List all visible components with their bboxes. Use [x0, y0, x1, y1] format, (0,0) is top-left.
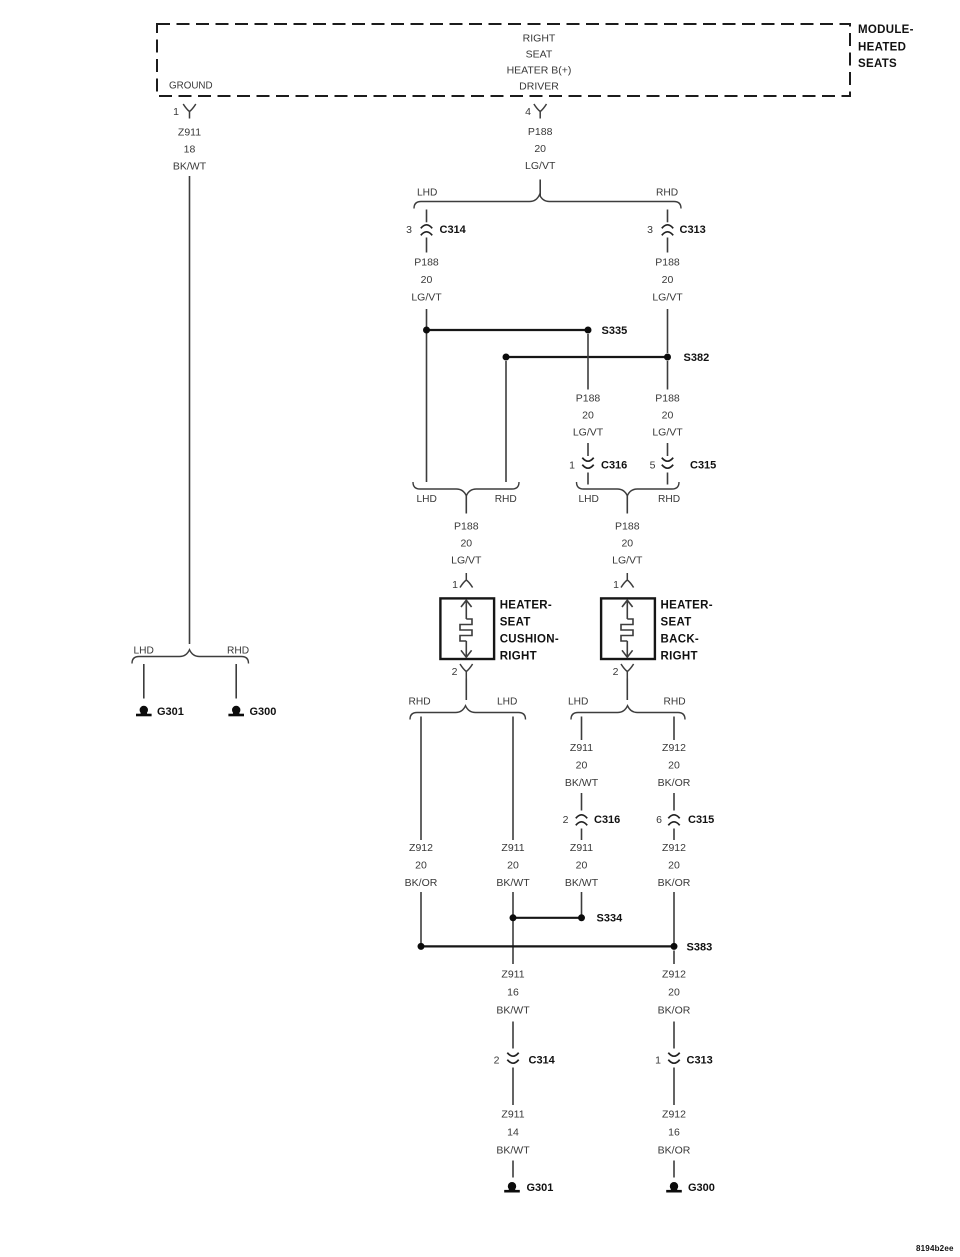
svg-text:LHD: LHD [568, 696, 588, 707]
wire Z911 14 BK/WT label [512, 1068, 514, 1106]
svg-text:C313: C313 [687, 1054, 713, 1066]
svg-text:20: 20 [507, 859, 519, 871]
wire: to S334 [581, 892, 583, 915]
svg-text:3: 3 [406, 224, 412, 236]
svg-text:1: 1 [173, 106, 179, 118]
svg-text:BK/WT: BK/WT [565, 877, 599, 889]
svg-text:P188: P188 [615, 520, 640, 532]
wire: merge to heater back [626, 496, 628, 514]
merge brace LHD/RHD (heater-seat cushion feed) [413, 482, 519, 505]
wire Z912 16 BK/OR label [673, 1068, 675, 1106]
svg-text:P188: P188 [454, 520, 479, 532]
wire: merge to heater cushion [465, 496, 467, 514]
wire Z911 20 BK/WT label (back LHD lower) [581, 829, 583, 841]
connector C315 pin 5 [650, 458, 717, 472]
wire: back LHD return [581, 717, 583, 741]
svg-text:RHD: RHD [664, 696, 686, 707]
module label MODULE-HEATED SEATS [858, 24, 914, 70]
svg-text:CUSHION-: CUSHION- [500, 634, 559, 646]
svg-text:LG/VT: LG/VT [652, 291, 683, 303]
svg-text:BK/WT: BK/WT [496, 877, 530, 889]
wire: heater cushion to split [465, 679, 467, 701]
svg-text:LG/VT: LG/VT [612, 554, 643, 566]
svg-text:MODULE-: MODULE- [858, 24, 914, 36]
pin 4 of module (RIGHT SEAT HEATER B+ DRIVER) [525, 104, 546, 119]
svg-text:Z912: Z912 [662, 968, 686, 980]
svg-text:BK/WT: BK/WT [496, 1144, 530, 1156]
svg-text:20: 20 [576, 759, 588, 771]
svg-text:Z912: Z912 [409, 842, 433, 854]
split brace LHD/RHD (top) [414, 187, 681, 208]
wire: brace to C314 [426, 210, 428, 223]
svg-text:P188: P188 [576, 392, 601, 404]
svg-text:SEAT: SEAT [500, 617, 531, 629]
svg-text:G301: G301 [527, 1182, 554, 1194]
svg-text:BK/WT: BK/WT [173, 160, 207, 172]
svg-text:S334: S334 [597, 913, 624, 925]
svg-text:16: 16 [507, 986, 519, 998]
svg-text:LHD: LHD [417, 187, 437, 198]
svg-text:Z911: Z911 [178, 126, 201, 138]
svg-text:BK/OR: BK/OR [658, 877, 691, 889]
svg-text:8194b2ee: 8194b2ee [916, 1244, 954, 1253]
svg-text:1: 1 [569, 459, 575, 471]
wire P188 20 LG/VT label (LHD branch) [426, 238, 428, 253]
svg-text:16: 16 [668, 1126, 680, 1138]
wire: left ground run [189, 176, 191, 644]
wire Z912 20 BK/OR label (back RHD lower) [673, 829, 675, 841]
svg-text:C315: C315 [688, 814, 714, 826]
wire: C316 to merge brace [587, 473, 589, 485]
connector C313 pin 3 [647, 224, 706, 236]
svg-text:HEATER B(+): HEATER B(+) [507, 65, 572, 77]
heater element: HEATER-SEAT CUSHION-RIGHT [440, 598, 494, 659]
svg-text:RHD: RHD [656, 187, 678, 198]
svg-text:GROUND: GROUND [169, 81, 213, 92]
split brace LHD/RHD (back return) [568, 696, 686, 719]
svg-text:LG/VT: LG/VT [525, 160, 556, 172]
wire: through S334 and S383 [512, 892, 514, 964]
wire: C313 down to splice S382 [667, 309, 669, 353]
splice S335 [423, 325, 627, 337]
svg-text:S335: S335 [602, 325, 628, 337]
svg-text:1: 1 [613, 579, 619, 591]
svg-text:Z911: Z911 [501, 968, 524, 980]
svg-text:2: 2 [613, 666, 619, 678]
pin 2 of heater back [613, 664, 634, 679]
svg-text:20: 20 [668, 859, 680, 871]
label HEATER-SEAT CUSHION-RIGHT [500, 600, 559, 663]
module U1: MODULE-HEATED SEATS (dashed outline) [157, 24, 850, 96]
connector C313 pin 1 [655, 1053, 713, 1067]
wire to G300 (RHD) [235, 664, 237, 699]
svg-text:4: 4 [525, 106, 531, 118]
svg-text:Z912: Z912 [662, 1108, 686, 1120]
svg-text:C314: C314 [529, 1054, 556, 1066]
pin 1 of heater back [613, 573, 633, 591]
heater element: HEATER-SEAT BACK-RIGHT [601, 598, 655, 659]
splice S382 [503, 352, 710, 364]
svg-text:Z912: Z912 [662, 842, 686, 854]
wire: C315 to merge brace [667, 473, 669, 485]
svg-text:20: 20 [421, 274, 433, 286]
svg-text:Z912: Z912 [662, 742, 686, 754]
svg-text:P188: P188 [414, 256, 439, 268]
merge brace LHD/RHD (heater-seat back feed) [577, 482, 681, 505]
pin 1 of module (GROUND) [173, 104, 196, 119]
svg-text:20: 20 [621, 537, 633, 549]
wire into C314 (bottom) [512, 1022, 514, 1049]
connector C316 pin 2 [563, 814, 621, 826]
wire: cushion RHD return run [420, 717, 422, 841]
svg-text:BK/OR: BK/OR [658, 777, 691, 789]
svg-text:20: 20 [662, 409, 674, 421]
svg-text:1: 1 [655, 1054, 661, 1066]
svg-text:LG/VT: LG/VT [573, 426, 604, 438]
wire: S382 right leg down [667, 361, 669, 390]
svg-text:1: 1 [452, 579, 458, 591]
svg-text:LHD: LHD [497, 696, 517, 707]
svg-text:20: 20 [534, 143, 546, 155]
ground G301 (left) [136, 706, 184, 718]
svg-text:Z911: Z911 [501, 842, 524, 854]
svg-text:P188: P188 [528, 126, 553, 138]
svg-text:SEAT: SEAT [661, 617, 692, 629]
svg-text:S382: S382 [684, 352, 710, 364]
svg-text:C316: C316 [594, 814, 620, 826]
svg-text:2: 2 [563, 814, 569, 826]
wire into C315 [673, 793, 675, 811]
wire to G301 (LHD) [143, 664, 145, 699]
wire: C314 down to merge (through S335) [426, 309, 428, 482]
svg-text:C314: C314 [440, 224, 467, 236]
wire: S383 to label [673, 951, 675, 965]
svg-text:G300: G300 [688, 1182, 715, 1194]
wire: S335 right leg down [587, 334, 589, 390]
svg-text:P188: P188 [655, 256, 680, 268]
wire into C316 [581, 793, 583, 811]
svg-text:RIGHT: RIGHT [500, 651, 537, 663]
svg-text:HEATED: HEATED [858, 42, 906, 54]
svg-text:5: 5 [650, 459, 656, 471]
ground G300 (left) [228, 706, 276, 718]
svg-text:DRIVER: DRIVER [519, 81, 559, 93]
svg-text:RHD: RHD [658, 494, 680, 505]
svg-text:SEAT: SEAT [526, 49, 553, 61]
wire: brace to C313 [667, 210, 669, 223]
svg-text:LHD: LHD [579, 494, 599, 505]
svg-text:LHD: LHD [134, 645, 154, 656]
connector C315 pin 6 [656, 814, 714, 826]
svg-text:BK/OR: BK/OR [658, 1144, 691, 1156]
wire: pin 4 to split [539, 180, 541, 197]
svg-text:Z911: Z911 [570, 842, 593, 854]
pin 1 of heater cushion [452, 573, 472, 591]
svg-text:BACK-: BACK- [661, 634, 700, 646]
svg-text:6: 6 [656, 814, 662, 826]
wire: back RHD return [673, 717, 675, 741]
svg-text:20: 20 [668, 759, 680, 771]
splice S383 [418, 941, 713, 953]
wire: cushion LHD return run [512, 717, 514, 841]
wire: to S383 [673, 892, 675, 943]
svg-text:G301: G301 [157, 706, 184, 718]
svg-text:3: 3 [647, 224, 653, 236]
svg-text:20: 20 [662, 274, 674, 286]
svg-text:20: 20 [576, 859, 588, 871]
svg-text:20: 20 [460, 537, 472, 549]
svg-text:LG/VT: LG/VT [652, 426, 683, 438]
svg-text:SEATS: SEATS [858, 58, 897, 70]
svg-text:RHD: RHD [409, 696, 431, 707]
pin 2 of heater cushion [452, 664, 473, 679]
wire: down to S383 [420, 892, 422, 943]
splice S334 [510, 913, 624, 925]
wire into C313 (bottom) [673, 1022, 675, 1049]
svg-text:S383: S383 [687, 941, 713, 953]
wire P188 20 LG/VT label (RHD branch) [667, 238, 669, 253]
svg-text:20: 20 [582, 409, 594, 421]
connector C316 pin 1 [569, 458, 627, 472]
wire: S382 left leg down to merge [505, 361, 507, 482]
connector C314 pin 3 [406, 224, 467, 236]
svg-text:RHD: RHD [227, 645, 249, 656]
svg-text:HEATER-: HEATER- [500, 600, 552, 612]
svg-text:RIGHT: RIGHT [523, 33, 556, 45]
ground G300 (bottom) [666, 1182, 715, 1194]
wire: to ground G300 [673, 1161, 675, 1178]
svg-text:RHD: RHD [495, 494, 517, 505]
svg-text:C315: C315 [690, 459, 716, 471]
svg-text:2: 2 [494, 1054, 500, 1066]
split brace RHD/LHD (cushion return) [409, 696, 526, 719]
split brace LHD/RHD (left ground) [132, 645, 249, 663]
svg-text:LHD: LHD [417, 494, 437, 505]
svg-text:20: 20 [415, 859, 427, 871]
svg-text:G300: G300 [250, 706, 277, 718]
svg-text:BK/WT: BK/WT [565, 777, 599, 789]
svg-text:Z911: Z911 [570, 742, 593, 754]
svg-text:20: 20 [668, 986, 680, 998]
svg-text:LG/VT: LG/VT [451, 554, 482, 566]
connector C314 pin 2 [494, 1053, 556, 1067]
svg-text:BK/OR: BK/OR [405, 877, 438, 889]
svg-text:BK/WT: BK/WT [496, 1004, 530, 1016]
svg-text:14: 14 [507, 1126, 519, 1138]
svg-text:Z911: Z911 [501, 1108, 524, 1120]
svg-text:BK/OR: BK/OR [658, 1004, 691, 1016]
wire: to ground G301 [512, 1161, 514, 1178]
wire: heater back to split [626, 679, 628, 701]
ground G301 (bottom) [504, 1182, 553, 1194]
svg-text:LG/VT: LG/VT [411, 291, 442, 303]
label HEATER-SEAT BACK-RIGHT [661, 600, 713, 663]
svg-text:18: 18 [184, 143, 196, 155]
svg-text:C313: C313 [680, 224, 706, 236]
svg-text:P188: P188 [655, 392, 680, 404]
svg-text:HEATER-: HEATER- [661, 600, 713, 612]
module internal label RIGHT SEAT HEATER B(+) DRIVER [507, 33, 572, 93]
svg-text:2: 2 [452, 666, 458, 678]
svg-text:C316: C316 [601, 459, 627, 471]
svg-text:RIGHT: RIGHT [661, 651, 698, 663]
